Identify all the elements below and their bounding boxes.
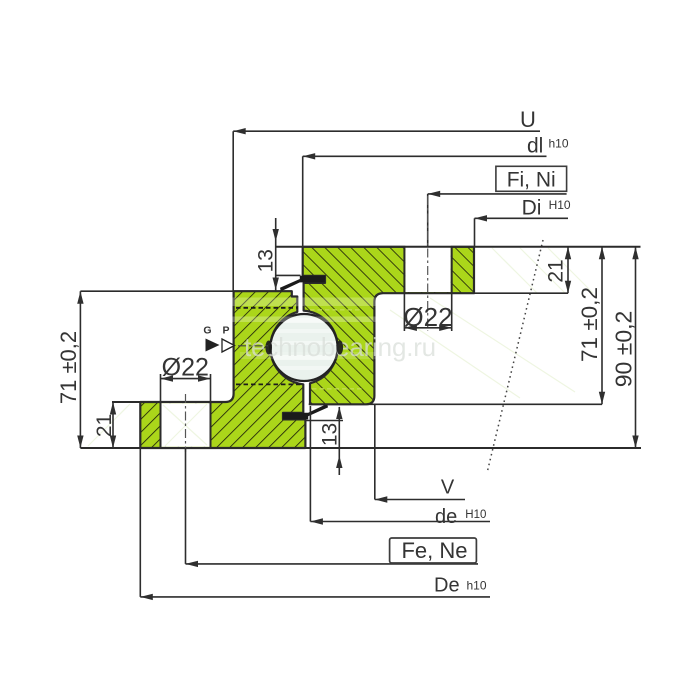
71 +-0,2 dimension (left) bbox=[56, 291, 84, 448]
outer ring top face line (side view extension) bbox=[276, 246, 641, 248]
Fi, Ni dimension (boxed label) bbox=[428, 166, 567, 247]
hidden light dashed lines (outer ring) bbox=[310, 309, 362, 311]
svg-text:Fi, Ni: Fi, Ni bbox=[507, 168, 556, 191]
dl h10 dimension bbox=[303, 135, 569, 247]
svg-text:P: P bbox=[222, 325, 229, 337]
svg-text:21: 21 bbox=[545, 259, 568, 282]
ball-raceway contact points bbox=[265, 341, 272, 355]
svg-text:U: U bbox=[520, 107, 536, 132]
svg-text:h10: h10 bbox=[467, 579, 487, 593]
bolt hole in inner ring flange (bottom) bbox=[161, 402, 211, 448]
svg-text:G: G bbox=[203, 325, 211, 337]
watermark light bands bbox=[230, 298, 476, 307]
svg-text:13: 13 bbox=[255, 249, 278, 272]
svg-text:dl: dl bbox=[527, 135, 543, 158]
upper plug (black wedge) bbox=[280, 276, 325, 292]
svg-text:H10: H10 bbox=[549, 198, 571, 212]
inner ring (bottom-left, section hatched) bbox=[140, 291, 305, 448]
21 dimension (left) bbox=[93, 402, 116, 448]
svg-text:h10: h10 bbox=[549, 137, 569, 151]
G P grease fitting symbols bbox=[203, 325, 268, 353]
outer ring flange step line (side view) bbox=[474, 292, 568, 294]
svg-text:De: De bbox=[434, 575, 460, 597]
svg-text:13: 13 bbox=[319, 423, 342, 446]
de H10 dimension bbox=[310, 406, 490, 528]
break line (dotted, slanted) bbox=[487, 240, 543, 473]
centerline of bottom bolt hole (dash-dot) bbox=[185, 394, 187, 452]
De h10 dimension bbox=[140, 448, 490, 600]
svg-text:21: 21 bbox=[93, 414, 116, 437]
svg-text:Di: Di bbox=[522, 196, 542, 219]
inner ring top face line (extended) bbox=[80, 290, 291, 292]
Di H10 dimension bbox=[475, 196, 571, 246]
svg-text:71 ±0,2: 71 ±0,2 bbox=[56, 331, 81, 404]
90 +-0,2 dimension (right) bbox=[611, 247, 639, 448]
svg-text:Fe, Ne: Fe, Ne bbox=[401, 538, 467, 563]
svg-text:Ø22: Ø22 bbox=[403, 302, 452, 332]
svg-text:H10: H10 bbox=[465, 509, 486, 521]
21 dimension (right) bbox=[545, 247, 572, 293]
13 dimension (lower) bbox=[305, 407, 344, 476]
O22 top dimension bbox=[403, 293, 452, 332]
faint diagonal marks in white view areas bbox=[88, 248, 593, 446]
svg-text:71 ±0,2: 71 ±0,2 bbox=[577, 287, 602, 362]
U dimension bbox=[233, 107, 540, 291]
outer ring (top-right, section hatched) bbox=[303, 247, 474, 404]
bolt hole in outer ring flange (top) bbox=[404, 246, 451, 294]
svg-text:90 ±0,2: 90 ±0,2 bbox=[611, 311, 637, 388]
outer ring bottom face line (extended) bbox=[309, 403, 602, 405]
centerline of top bolt hole (dash-dot) bbox=[427, 196, 429, 331]
svg-text:Ø22: Ø22 bbox=[162, 354, 209, 382]
inner ring flange top line (side view) bbox=[112, 401, 225, 403]
Fe, Ne dimension (boxed label) bbox=[186, 448, 479, 567]
O22 bottom-left dimension bbox=[161, 354, 211, 403]
V dimension bbox=[375, 404, 465, 502]
inner ring bottom face line (extended) bbox=[80, 447, 641, 449]
71 +-0,2 dimension (right) bbox=[577, 247, 605, 404]
svg-text:de: de bbox=[435, 506, 457, 528]
svg-text:V: V bbox=[441, 477, 455, 499]
13 dimension (upper) bbox=[255, 218, 301, 291]
hidden dashed lines (inner ring) bbox=[236, 307, 298, 309]
lower plug (black wedge) bbox=[283, 404, 328, 420]
